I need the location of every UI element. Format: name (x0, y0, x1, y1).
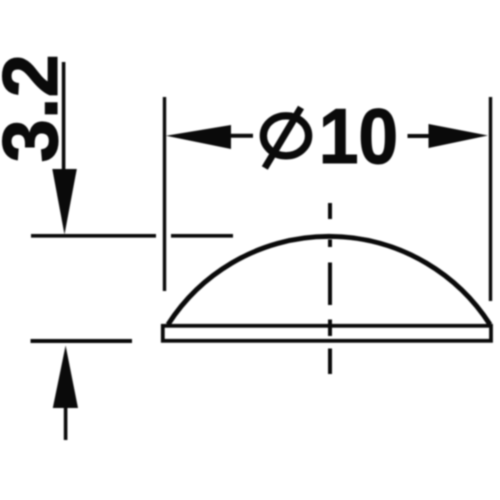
diameter symbol of label Ø10 (263, 108, 308, 169)
dimension arrow right (points right to extension line) (408, 124, 489, 148)
extension line: left (diameter 10) (163, 97, 166, 291)
dimension arrow left (points left to extension line) (166, 125, 253, 149)
extension line: bottom of base (3.2 lower reference) (31, 339, 133, 343)
centerline (vertical dash-dot axis) (328, 203, 332, 374)
extension line: top of dome (3.2 upper reference) (31, 234, 233, 238)
dimension label 3.2 (0, 54, 74, 162)
base plate rectangle (163, 326, 491, 341)
extension line: right (diameter 10) (489, 97, 492, 301)
dimension arrow 3.2 (up arrow below base line) (53, 346, 78, 441)
svg-text:10: 10 (319, 92, 399, 180)
dimension line 3.2 (vertical with down arrow) (52, 62, 77, 235)
dome outline (spherical cap profile) (168, 236, 490, 324)
